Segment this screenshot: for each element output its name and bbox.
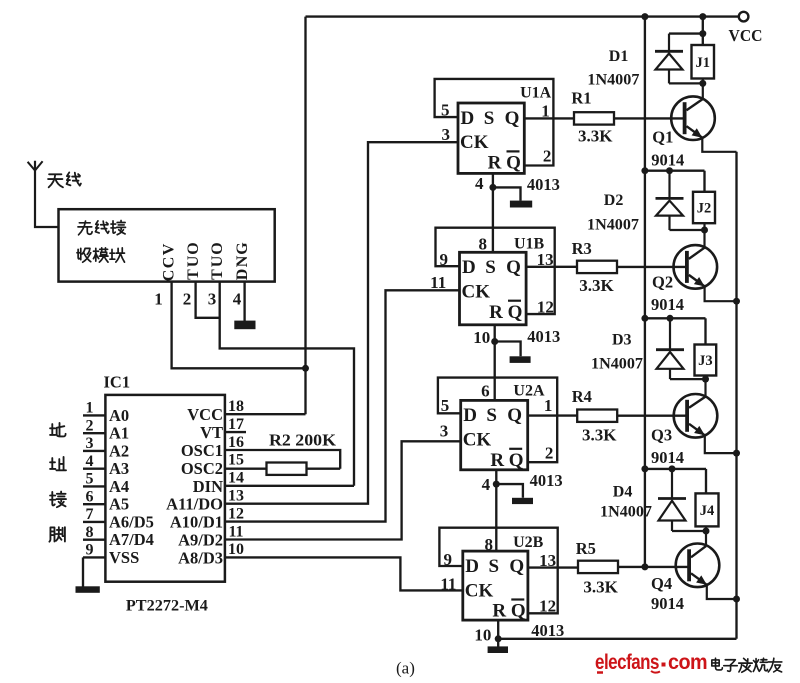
svg-text:Q3: Q3 xyxy=(651,426,672,445)
svg-text:OSC2: OSC2 xyxy=(181,459,223,478)
node bus at top rail xyxy=(641,13,648,20)
node emitter rail Q4 xyxy=(733,596,740,603)
IC1 pin 1 stub xyxy=(83,414,105,416)
svg-text:1N4007: 1N4007 xyxy=(587,72,639,89)
diode D1 xyxy=(668,34,670,52)
svg-text:9014: 9014 xyxy=(651,151,684,170)
IC1 pin 2 stub xyxy=(83,432,105,434)
svg-text:6: 6 xyxy=(481,382,490,401)
svg-text:CK: CK xyxy=(463,430,492,451)
svg-text:R: R xyxy=(488,153,502,174)
wire U1B R node to U2A S input xyxy=(494,342,496,401)
logo elecfans.com xyxy=(595,651,707,674)
svg-text:12: 12 xyxy=(228,505,244,522)
svg-text:5: 5 xyxy=(86,471,94,488)
ground U1A xyxy=(510,201,532,208)
IC1 pin 4 stub xyxy=(83,467,105,469)
wire right emitter rail xyxy=(735,152,737,639)
svg-text:elecfans: elecfans xyxy=(595,651,659,674)
wire U2A R pin down xyxy=(495,470,497,484)
wire R2 to OSC1 loop xyxy=(307,468,341,470)
resistor R4 xyxy=(577,410,617,422)
svg-text:D3: D3 xyxy=(612,332,632,349)
diode D2 xyxy=(668,171,670,199)
svg-text:4013: 4013 xyxy=(531,621,564,640)
wire D2 bottom to J2 bottom xyxy=(670,229,705,231)
svg-text:12: 12 xyxy=(537,297,554,316)
svg-text:11: 11 xyxy=(440,574,456,593)
svg-text:A10/D1: A10/D1 xyxy=(170,513,223,532)
svg-text:R2 200K: R2 200K xyxy=(269,430,336,449)
wire D4 bottom to J4 bottom xyxy=(672,530,706,532)
flip-flop U1A loop wire (D to Qbar) xyxy=(435,79,554,166)
flip-flop U1B box xyxy=(460,252,527,324)
svg-text:R4: R4 xyxy=(572,387,592,406)
svg-text:A5: A5 xyxy=(109,495,129,514)
label shou-mo-kuai xyxy=(77,248,125,262)
svg-text:DIN: DIN xyxy=(193,477,223,496)
wire DIN stub xyxy=(225,485,354,487)
svg-text:2: 2 xyxy=(183,290,192,309)
svg-text:C: C xyxy=(161,270,178,282)
label dianzi-fashaoyou (elecfans chinese) xyxy=(712,658,782,672)
wire J3 bottom stub xyxy=(704,376,706,380)
wire A10/D1 to U1B CK xyxy=(225,290,460,521)
svg-text:Q: Q xyxy=(509,450,524,471)
wire module pin2 OUT to pin3 line xyxy=(196,282,220,318)
node emitter rail Q3 xyxy=(733,450,740,457)
svg-text:A9/D2: A9/D2 xyxy=(178,531,223,550)
transistor Q4 xyxy=(676,544,720,588)
wire A9/D2 to U2A CK xyxy=(225,441,461,539)
wire U1B Q output to resistor xyxy=(526,266,577,268)
flip-flop U2A loop wire (D to Qbar) xyxy=(438,378,557,463)
wire J3 bottom to Q3 collector xyxy=(704,379,706,397)
relay J3 xyxy=(695,345,717,376)
svg-text:VCC: VCC xyxy=(729,26,763,45)
wire A11/DO to U1A CK xyxy=(225,142,458,504)
wire U1A R node to U1B S input xyxy=(492,187,494,252)
wire top VCC rail xyxy=(306,15,739,17)
svg-text:T: T xyxy=(185,269,202,280)
svg-text:Q4: Q4 xyxy=(651,574,672,593)
flip-flop U2B loop wire (D to Qbar) xyxy=(439,528,557,614)
wire J2 riser down xyxy=(703,171,705,192)
svg-text:S: S xyxy=(486,405,497,426)
node U2A R junction xyxy=(493,481,500,488)
node bus at D4 branch xyxy=(641,465,648,472)
svg-text:4: 4 xyxy=(475,174,484,193)
node D2 top xyxy=(666,167,673,174)
svg-text:R: R xyxy=(490,450,504,471)
antenna xyxy=(35,161,59,227)
wire Q2 emitter to right rail xyxy=(705,286,737,301)
svg-text:A7/D4: A7/D4 xyxy=(109,530,154,549)
svg-text:14: 14 xyxy=(228,470,244,487)
svg-text:T: T xyxy=(209,269,226,280)
label wu-xian-jie xyxy=(78,220,126,234)
wire A8/D3 to U2B CK xyxy=(225,557,463,590)
IC1 pin 3 stub xyxy=(83,450,105,452)
svg-text:com: com xyxy=(668,651,707,674)
svg-text:U1A: U1A xyxy=(520,85,552,102)
wire U2A Q output to resistor xyxy=(528,414,578,416)
ground U2B xyxy=(488,646,508,653)
svg-text:IC1: IC1 xyxy=(104,372,131,391)
IC1 pin 6 stub xyxy=(83,503,105,505)
node J2 bottom xyxy=(701,227,708,234)
svg-text:CK: CK xyxy=(462,282,491,303)
svg-text:U: U xyxy=(185,255,202,267)
node bus at R5 wire xyxy=(641,563,648,570)
IC1 pin 7 stub xyxy=(83,521,105,523)
svg-text:1: 1 xyxy=(544,396,553,415)
wire J2 bottom stub xyxy=(703,223,705,230)
wire rail down to J1 xyxy=(702,17,704,45)
svg-text:7: 7 xyxy=(86,506,94,523)
IC1 pin 18 stub (VCC) xyxy=(225,413,306,415)
svg-text:1: 1 xyxy=(86,400,94,417)
svg-text:R: R xyxy=(492,601,506,622)
wire U1A R pin down xyxy=(492,173,494,187)
flip-flop U2B box xyxy=(463,551,528,620)
transistor Q3 xyxy=(674,394,718,438)
svg-text:13: 13 xyxy=(539,551,556,570)
wire R3 to transistor base xyxy=(617,266,685,268)
wire D1 bottom to J1 bottom xyxy=(669,82,703,84)
svg-text:Q: Q xyxy=(508,302,523,323)
wire J4 bottom stub xyxy=(705,526,707,531)
flip-flop U1A box xyxy=(458,103,524,173)
diode D4 xyxy=(671,469,673,499)
wire module pin4 GND stub xyxy=(243,282,245,321)
wire U2A R node to U2B S input xyxy=(495,484,497,551)
svg-text:J3: J3 xyxy=(698,353,713,369)
svg-text:OSC1: OSC1 xyxy=(181,441,223,460)
wire Q3 emitter to right rail xyxy=(705,435,737,453)
ground module pin4 xyxy=(234,321,255,330)
svg-text:VCC: VCC xyxy=(187,405,223,424)
IC1 pin 8 stub xyxy=(83,538,105,540)
svg-text:O: O xyxy=(185,242,202,254)
wire bottom ground rail xyxy=(498,638,736,640)
wire U1B R pin down xyxy=(494,325,496,342)
wire R1 to transistor base xyxy=(614,117,683,119)
svg-text:U: U xyxy=(209,255,226,267)
svg-text:12: 12 xyxy=(539,597,556,616)
wire D1 top branch xyxy=(669,32,703,34)
wire module pin1 VCC down-right to junction xyxy=(172,282,306,369)
wire D3 bottom to J3 bottom xyxy=(670,378,706,380)
wire J1 bottom stub xyxy=(702,79,704,84)
svg-text:3.3K: 3.3K xyxy=(578,126,613,145)
svg-text:3.3K: 3.3K xyxy=(583,578,618,597)
node module VCC junction xyxy=(302,365,309,372)
svg-text:3: 3 xyxy=(440,422,449,441)
wire OSC2 to R2 xyxy=(225,468,267,470)
svg-text:11: 11 xyxy=(430,273,446,292)
svg-text:4013: 4013 xyxy=(527,327,560,346)
svg-text:2: 2 xyxy=(545,443,554,462)
svg-text:10: 10 xyxy=(473,328,490,347)
node bus at D3 branch xyxy=(641,315,648,322)
svg-text:8: 8 xyxy=(484,535,493,554)
svg-text:16: 16 xyxy=(228,434,244,451)
svg-text:N: N xyxy=(234,255,251,267)
svg-text:V: V xyxy=(161,243,178,255)
wire J2 bottom to Q2 collector xyxy=(703,230,705,248)
svg-text:1N4007: 1N4007 xyxy=(591,355,643,372)
svg-text:R3: R3 xyxy=(572,239,592,258)
svg-text:Q1: Q1 xyxy=(652,128,673,147)
svg-text:A4: A4 xyxy=(109,477,129,496)
transistor Q1 xyxy=(671,96,715,140)
ground VSS xyxy=(76,586,100,593)
svg-text:Q: Q xyxy=(506,257,521,278)
svg-text:U2A: U2A xyxy=(513,383,545,400)
VCC terminal xyxy=(739,12,749,22)
wire bus to J2 riser xyxy=(645,170,705,172)
svg-text:3: 3 xyxy=(441,125,450,144)
svg-text:VSS: VSS xyxy=(109,548,139,567)
module pin label VCC (rotated) xyxy=(161,243,178,281)
svg-text:Q2: Q2 xyxy=(652,272,673,291)
wire OSC1 loop xyxy=(225,450,340,469)
svg-text:10: 10 xyxy=(228,541,244,558)
svg-text:3.3K: 3.3K xyxy=(579,276,614,295)
wire U1A Q output to resistor xyxy=(524,117,574,119)
node D3 top xyxy=(667,315,674,322)
node U1A R junction xyxy=(489,184,496,191)
svg-text:4: 4 xyxy=(86,453,94,470)
svg-text:4013: 4013 xyxy=(530,471,563,490)
node D4 top xyxy=(669,465,676,472)
svg-text:A11/DO: A11/DO xyxy=(166,495,223,514)
svg-text:8: 8 xyxy=(478,235,487,254)
svg-text:VT: VT xyxy=(200,423,223,442)
module pin label OUT (rotated) xyxy=(185,242,202,280)
wire U2B R pin down xyxy=(497,620,499,639)
module RF receiver box xyxy=(59,209,275,281)
relay J4 xyxy=(696,493,719,526)
svg-text:S: S xyxy=(489,556,500,577)
wire U1B R to ground xyxy=(495,342,521,357)
resistor R5 xyxy=(578,561,618,573)
svg-text:D: D xyxy=(462,257,476,278)
node rail to J1 xyxy=(699,13,706,20)
svg-text:13: 13 xyxy=(537,250,554,269)
svg-text:(a): (a) xyxy=(396,659,415,678)
svg-text:5: 5 xyxy=(441,101,450,120)
relay J1 xyxy=(692,45,715,79)
svg-text:D4: D4 xyxy=(613,484,633,501)
node J3 bottom xyxy=(702,376,709,383)
svg-text:J4: J4 xyxy=(700,503,715,519)
svg-text:Q: Q xyxy=(507,405,522,426)
wire U2B Q output to resistor xyxy=(528,566,578,568)
svg-text:CK: CK xyxy=(460,132,489,153)
node U1B R junction xyxy=(491,338,498,345)
svg-text:9: 9 xyxy=(439,250,448,269)
svg-text:1N4007: 1N4007 xyxy=(600,504,652,521)
svg-text:5: 5 xyxy=(441,396,450,415)
wire J4 riser down xyxy=(705,469,707,494)
wire R4 to transistor base xyxy=(617,415,685,417)
svg-text:9: 9 xyxy=(86,542,94,559)
IC1 pin 5 stub xyxy=(83,485,105,487)
svg-text:U2B: U2B xyxy=(513,534,544,551)
ground U1B xyxy=(510,356,531,363)
svg-text:2: 2 xyxy=(543,146,552,165)
svg-text:A1: A1 xyxy=(109,424,129,443)
node bus at D2 branch xyxy=(641,167,648,174)
svg-text:6: 6 xyxy=(86,488,94,505)
node D1 top on J riser xyxy=(699,30,706,37)
svg-text:8: 8 xyxy=(86,524,94,541)
transistor Q2 xyxy=(674,245,718,289)
svg-text:D: D xyxy=(234,269,251,281)
wire J4 bottom to Q4 collector xyxy=(705,531,707,546)
wire module pin3 OUT down then right to DIN riser xyxy=(220,282,354,486)
wire bus to J4 riser xyxy=(645,468,706,470)
IC U-IC1 box xyxy=(105,395,224,582)
svg-text:R5: R5 xyxy=(576,539,596,558)
svg-text:G: G xyxy=(234,242,251,255)
resistor R1 xyxy=(574,112,614,124)
svg-text:17: 17 xyxy=(228,416,244,433)
IC1 pin 17 stub (VT) xyxy=(225,431,246,433)
wire Q1 emitter to right rail xyxy=(702,138,736,152)
svg-text:J1: J1 xyxy=(696,55,711,71)
svg-text:10: 10 xyxy=(474,625,491,644)
wire VSS to ground xyxy=(82,557,84,586)
diode D3 xyxy=(669,318,671,349)
svg-text:D1: D1 xyxy=(609,48,629,65)
module pin label GND (rotated) xyxy=(234,242,251,281)
svg-text:1N4007: 1N4007 xyxy=(587,216,639,233)
node emitter rail Q2 xyxy=(733,298,740,305)
svg-text:9014: 9014 xyxy=(651,295,684,314)
svg-text:Q: Q xyxy=(506,153,521,174)
flip-flop U2A box xyxy=(461,400,528,469)
wire J1 bottom to Q1 collector xyxy=(702,83,704,99)
wire VCC riser (top rail to IC pin18) xyxy=(304,17,306,415)
svg-text:9014: 9014 xyxy=(651,448,684,467)
resistor R2 xyxy=(267,463,307,475)
svg-text:Q: Q xyxy=(505,108,520,129)
module pin label OUT2 (rotated) xyxy=(209,242,226,280)
node J1 bottom xyxy=(699,80,706,87)
svg-text:1: 1 xyxy=(154,290,163,309)
svg-text:1: 1 xyxy=(541,102,550,121)
svg-text:A6/D5: A6/D5 xyxy=(109,512,154,531)
svg-text:3: 3 xyxy=(208,290,217,309)
svg-text:18: 18 xyxy=(228,398,244,415)
svg-text:CK: CK xyxy=(465,580,494,601)
svg-text:PT2272-M4: PT2272-M4 xyxy=(126,598,208,615)
svg-text:9014: 9014 xyxy=(651,594,684,613)
label tianxian (antenna) xyxy=(48,172,81,187)
svg-text:R: R xyxy=(489,302,503,323)
svg-text:11: 11 xyxy=(228,523,243,540)
svg-text:R1: R1 xyxy=(571,88,591,107)
wire U2B R to ground xyxy=(497,639,499,647)
svg-text:A8/D3: A8/D3 xyxy=(178,548,223,567)
svg-text:S: S xyxy=(484,108,495,129)
svg-text:D2: D2 xyxy=(604,192,624,209)
svg-text:D: D xyxy=(465,556,479,577)
svg-text:A0: A0 xyxy=(109,406,129,425)
wire J3 riser down xyxy=(704,318,706,344)
relay J2 xyxy=(693,192,715,223)
svg-text:3.3K: 3.3K xyxy=(582,425,617,444)
node J4 bottom xyxy=(703,528,710,535)
svg-text:D: D xyxy=(461,108,475,129)
svg-text:2: 2 xyxy=(86,417,94,434)
svg-text:O: O xyxy=(209,242,226,254)
wire Q4 emitter to right rail xyxy=(707,585,737,599)
svg-text:13: 13 xyxy=(228,488,244,505)
resistor R3 xyxy=(577,261,617,273)
svg-text:15: 15 xyxy=(228,452,244,469)
ground U2A xyxy=(512,498,533,504)
svg-text:Q: Q xyxy=(511,601,526,622)
svg-text:9: 9 xyxy=(444,550,453,569)
svg-text:C: C xyxy=(161,257,178,269)
svg-text:4013: 4013 xyxy=(527,175,560,194)
IC1 pin 9 stub xyxy=(83,556,105,558)
svg-text:4: 4 xyxy=(482,475,491,494)
wire VCC bus vertical xyxy=(644,17,646,567)
svg-text:Q: Q xyxy=(509,556,524,577)
wire U1A R to ground xyxy=(493,187,521,200)
svg-text:A2: A2 xyxy=(109,441,129,460)
wire bus to J3 riser xyxy=(645,317,706,319)
svg-text:S: S xyxy=(485,257,496,278)
svg-text:D: D xyxy=(463,405,477,426)
svg-text:3: 3 xyxy=(86,435,94,452)
label address-pins column (di zhi jie jiao) xyxy=(49,423,66,542)
svg-text:A3: A3 xyxy=(109,459,129,478)
wire R5 to transistor base xyxy=(618,566,688,568)
node U2B R junction xyxy=(495,635,502,642)
svg-text:J2: J2 xyxy=(697,201,712,217)
svg-text:4: 4 xyxy=(233,290,242,309)
flip-flop U1B loop wire (D to Qbar) xyxy=(436,228,555,314)
wire U2A R to ground xyxy=(496,484,523,498)
